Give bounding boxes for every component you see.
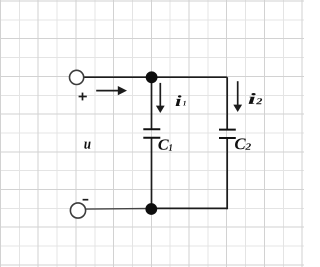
label i1 xyxy=(176,95,186,106)
polarity label + xyxy=(79,93,87,101)
wire right branch upper xyxy=(226,77,228,129)
wire top: source + terminal to right branch corner xyxy=(84,76,227,78)
polarity label - xyxy=(83,199,89,201)
wire bottom right: junction to right branch xyxy=(151,207,227,209)
label C1 xyxy=(158,139,172,150)
current direction arrow (top) xyxy=(96,86,127,95)
wire C1 branch upper xyxy=(151,77,153,129)
wire right branch lower xyxy=(226,138,228,209)
label C2 xyxy=(235,138,251,149)
node junction top xyxy=(146,71,158,83)
terminal circle - (bottom) xyxy=(70,203,85,218)
wire C1 branch lower xyxy=(151,138,153,209)
label u xyxy=(84,142,90,149)
capacitor C2 plates xyxy=(219,130,236,138)
wire bottom left: - terminal to junction xyxy=(86,208,152,211)
capacitor C1 plates xyxy=(143,129,160,138)
terminal circle + (top) xyxy=(70,70,84,84)
node junction bottom xyxy=(145,203,157,215)
arrow i1 xyxy=(156,83,165,113)
arrow i2 xyxy=(233,81,242,112)
label i2 xyxy=(249,93,263,104)
